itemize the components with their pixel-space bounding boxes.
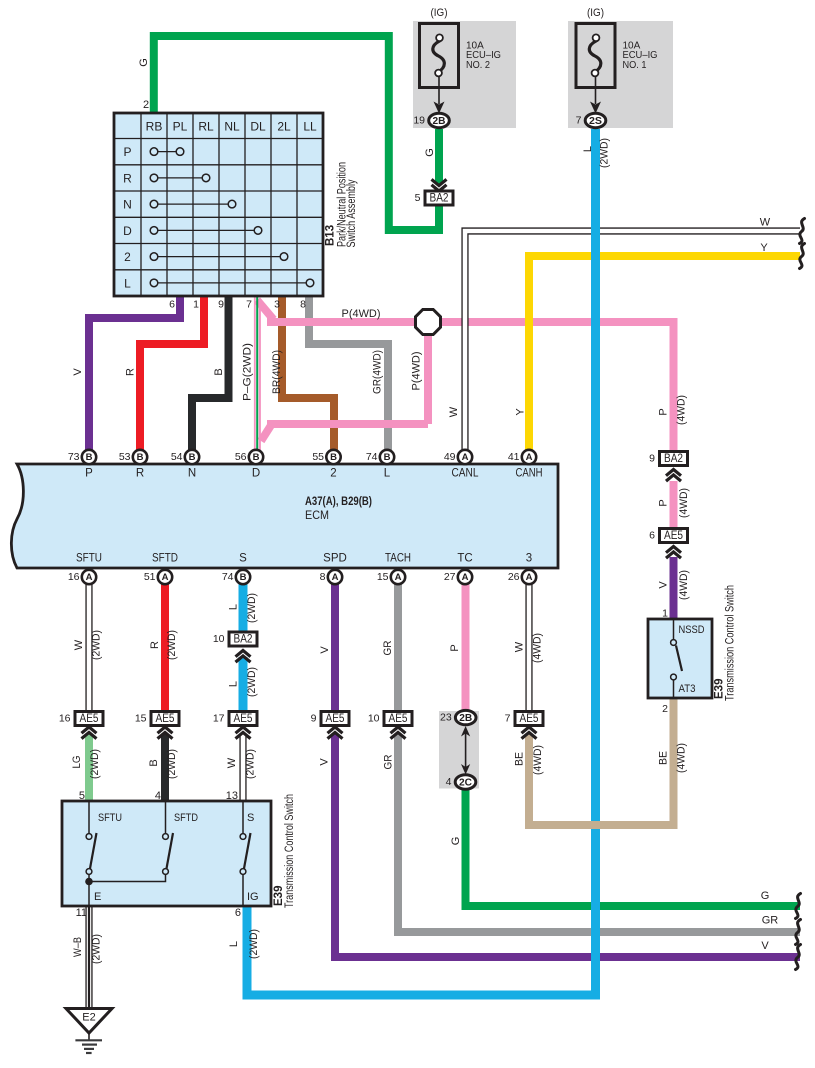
svg-text:P–G(2WD): P–G(2WD): [242, 343, 254, 401]
svg-text:P: P: [123, 145, 131, 159]
svg-text:5: 5: [415, 192, 421, 204]
svg-text:GR: GR: [383, 754, 395, 769]
svg-text:2S: 2S: [589, 115, 602, 127]
svg-text:23: 23: [440, 712, 452, 724]
svg-text:GR(4WD): GR(4WD): [372, 350, 384, 394]
svg-text:SPD: SPD: [323, 553, 347, 565]
svg-text:2: 2: [143, 99, 149, 111]
svg-text:8: 8: [300, 299, 306, 311]
svg-text:P(4WD): P(4WD): [342, 308, 381, 320]
svg-text:B: B: [384, 452, 391, 463]
svg-text:51: 51: [144, 571, 156, 583]
svg-text:AE5: AE5: [80, 713, 99, 725]
svg-text:P: P: [449, 644, 461, 651]
svg-text:DL: DL: [250, 120, 266, 134]
svg-text:5: 5: [79, 790, 85, 802]
svg-text:E2: E2: [82, 1012, 95, 1024]
svg-text:AT3: AT3: [679, 683, 696, 695]
svg-text:B: B: [330, 452, 337, 463]
svg-text:A: A: [462, 452, 469, 463]
svg-text:L: L: [384, 468, 391, 480]
svg-text:A: A: [395, 572, 402, 583]
svg-text:GR: GR: [762, 915, 779, 927]
svg-text:SFTU: SFTU: [76, 553, 102, 565]
svg-text:NL: NL: [224, 120, 240, 134]
svg-text:AE5: AE5: [389, 713, 408, 725]
svg-text:B: B: [189, 452, 196, 463]
svg-text:54: 54: [171, 451, 183, 463]
svg-text:AE5: AE5: [664, 530, 683, 542]
svg-text:W: W: [226, 757, 238, 768]
svg-text:ECM: ECM: [305, 510, 329, 522]
svg-text:G: G: [761, 890, 770, 902]
svg-text:9: 9: [311, 713, 317, 725]
svg-text:B: B: [253, 452, 260, 463]
svg-text:B: B: [86, 452, 93, 463]
svg-text:(IG): (IG): [431, 7, 448, 19]
svg-text:AE5: AE5: [326, 713, 345, 725]
svg-text:(2WD): (2WD): [246, 593, 258, 623]
svg-text:B: B: [240, 572, 247, 583]
svg-text:BA2: BA2: [430, 193, 449, 205]
svg-text:PL: PL: [173, 120, 188, 134]
svg-text:AE5: AE5: [156, 713, 175, 725]
svg-text:IG: IG: [247, 891, 259, 903]
svg-text:8: 8: [320, 571, 326, 583]
svg-text:2: 2: [662, 703, 668, 715]
svg-text:Y: Y: [515, 408, 527, 416]
svg-text:11: 11: [76, 907, 87, 919]
svg-text:R: R: [123, 171, 132, 185]
svg-text:BA2: BA2: [664, 453, 683, 465]
svg-text:9: 9: [649, 453, 655, 465]
svg-text:G: G: [450, 837, 462, 846]
svg-text:W: W: [448, 406, 460, 417]
svg-text:19: 19: [413, 115, 425, 127]
svg-text:D: D: [123, 224, 132, 238]
svg-text:G: G: [424, 148, 436, 157]
svg-text:V: V: [319, 758, 331, 766]
svg-text:S: S: [247, 812, 254, 824]
svg-text:(IG): (IG): [587, 7, 604, 19]
svg-text:(2WD): (2WD): [246, 667, 258, 697]
svg-text:(2WD): (2WD): [245, 749, 257, 779]
svg-text:4: 4: [155, 790, 161, 802]
svg-text:2L: 2L: [277, 120, 291, 134]
svg-text:15: 15: [135, 713, 147, 725]
svg-text:SFTU: SFTU: [98, 812, 122, 824]
svg-text:10: 10: [368, 713, 380, 725]
svg-text:R: R: [136, 468, 144, 480]
svg-text:(4WD): (4WD): [532, 745, 544, 775]
svg-text:Transmission Control Switch: Transmission Control Switch: [284, 794, 296, 908]
svg-text:9: 9: [218, 299, 224, 311]
svg-text:A: A: [526, 572, 533, 583]
svg-text:R: R: [149, 641, 161, 649]
svg-text:B: B: [148, 759, 160, 766]
svg-text:V: V: [658, 581, 670, 589]
svg-text:GR: GR: [382, 640, 394, 655]
svg-text:LG: LG: [71, 756, 83, 769]
svg-text:(2WD): (2WD): [166, 749, 178, 779]
svg-text:E: E: [94, 891, 101, 903]
svg-text:1: 1: [193, 299, 199, 311]
svg-text:7: 7: [576, 115, 582, 127]
svg-text:26: 26: [508, 571, 520, 583]
svg-text:B13: B13: [325, 225, 337, 246]
svg-text:P(4WD): P(4WD): [411, 352, 423, 391]
svg-text:(4WD): (4WD): [532, 633, 544, 663]
svg-text:2C: 2C: [459, 777, 472, 789]
svg-text:V: V: [72, 368, 84, 376]
svg-text:NO. 1: NO. 1: [623, 60, 647, 71]
svg-text:2B: 2B: [459, 712, 472, 724]
svg-text:V: V: [761, 940, 769, 952]
svg-text:16: 16: [59, 713, 71, 725]
svg-text:W: W: [73, 639, 85, 650]
svg-text:(2WD): (2WD): [166, 630, 178, 660]
svg-text:BR(4WD): BR(4WD): [271, 350, 283, 394]
svg-text:S: S: [239, 553, 247, 565]
svg-text:73: 73: [68, 451, 80, 463]
svg-text:W: W: [514, 641, 526, 652]
svg-text:P: P: [658, 408, 670, 415]
svg-text:49: 49: [444, 451, 456, 463]
svg-text:BE: BE: [658, 751, 670, 765]
svg-text:(4WD): (4WD): [678, 570, 690, 600]
svg-text:10: 10: [213, 633, 225, 645]
svg-text:CANL: CANL: [452, 468, 480, 480]
svg-text:P: P: [85, 468, 93, 480]
svg-text:SFTD: SFTD: [152, 553, 178, 565]
svg-text:A: A: [462, 572, 469, 583]
svg-text:A: A: [86, 572, 93, 583]
svg-text:SFTD: SFTD: [174, 812, 198, 824]
svg-text:L: L: [228, 604, 240, 610]
svg-text:41: 41: [508, 451, 520, 463]
svg-text:N: N: [123, 198, 132, 212]
svg-text:LL: LL: [303, 120, 317, 134]
svg-text:3: 3: [526, 553, 532, 565]
svg-text:N: N: [188, 468, 196, 480]
svg-text:RL: RL: [198, 120, 214, 134]
svg-text:A: A: [162, 572, 169, 583]
svg-text:13: 13: [226, 790, 238, 802]
svg-text:6: 6: [235, 907, 241, 919]
svg-text:W–B: W–B: [72, 937, 84, 957]
svg-text:AE5: AE5: [234, 713, 253, 725]
svg-text:(4WD): (4WD): [676, 395, 688, 425]
svg-text:27: 27: [444, 571, 456, 583]
svg-text:V: V: [319, 646, 331, 654]
svg-text:1: 1: [662, 608, 668, 620]
svg-text:(2WD): (2WD): [599, 138, 611, 168]
svg-text:4: 4: [446, 776, 452, 788]
svg-text:D: D: [252, 468, 260, 480]
svg-text:P: P: [658, 499, 670, 506]
svg-text:(4WD): (4WD): [678, 488, 690, 518]
svg-text:Switch Assembly: Switch Assembly: [346, 179, 358, 247]
svg-text:2: 2: [330, 468, 336, 480]
svg-text:BE: BE: [514, 752, 526, 766]
svg-text:CANH: CANH: [516, 468, 543, 480]
svg-text:RB: RB: [146, 120, 163, 134]
svg-text:15: 15: [377, 571, 389, 583]
svg-text:Y: Y: [760, 242, 768, 254]
svg-text:2: 2: [124, 250, 131, 264]
svg-text:TC: TC: [457, 553, 472, 565]
svg-text:A: A: [332, 572, 339, 583]
svg-text:(4WD): (4WD): [676, 743, 688, 773]
svg-text:17: 17: [213, 713, 225, 725]
svg-text:6: 6: [649, 530, 655, 542]
svg-text:7: 7: [505, 713, 511, 725]
svg-text:56: 56: [235, 451, 247, 463]
svg-text:R: R: [125, 368, 137, 376]
svg-text:NO. 2: NO. 2: [466, 60, 490, 71]
svg-text:B: B: [137, 452, 144, 463]
svg-text:74: 74: [366, 451, 378, 463]
svg-text:Transmission Control Switch: Transmission Control Switch: [725, 585, 737, 701]
svg-text:16: 16: [68, 571, 80, 583]
svg-text:74: 74: [222, 571, 234, 583]
svg-text:W: W: [760, 217, 771, 229]
svg-text:L: L: [124, 276, 131, 290]
svg-text:53: 53: [119, 451, 131, 463]
svg-text:55: 55: [312, 451, 324, 463]
svg-text:(2WD): (2WD): [91, 630, 103, 660]
svg-text:L: L: [582, 146, 594, 152]
svg-text:AE5: AE5: [520, 713, 539, 725]
svg-text:(2WD): (2WD): [89, 749, 101, 779]
svg-text:L: L: [228, 681, 240, 687]
svg-text:B: B: [213, 368, 225, 375]
svg-text:6: 6: [169, 299, 175, 311]
svg-text:3: 3: [274, 299, 280, 311]
svg-text:TACH: TACH: [385, 553, 411, 565]
svg-text:A37(A), B29(B): A37(A), B29(B): [305, 496, 372, 508]
svg-text:(2WD): (2WD): [91, 934, 103, 964]
svg-text:BA2: BA2: [234, 634, 253, 646]
svg-text:A: A: [526, 452, 533, 463]
svg-text:L: L: [228, 941, 240, 947]
svg-text:(2WD): (2WD): [248, 929, 260, 959]
svg-text:G: G: [138, 58, 150, 67]
svg-text:NSSD: NSSD: [679, 624, 705, 636]
svg-text:7: 7: [246, 299, 252, 311]
svg-text:2B: 2B: [433, 115, 446, 127]
